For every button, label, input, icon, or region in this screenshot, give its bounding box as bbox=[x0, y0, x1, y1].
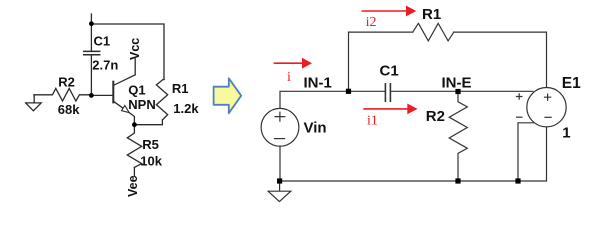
ground (left circuit) bbox=[26, 95, 42, 111]
current arrow i2 bbox=[362, 6, 417, 17]
svg-text:Vee: Vee bbox=[126, 175, 140, 197]
capacitor C1 (left) plates bbox=[84, 51, 100, 54]
svg-text:C1: C1 bbox=[94, 34, 111, 49]
svg-text:C1: C1 bbox=[380, 63, 399, 80]
Q1 collector wire to Vcc bbox=[113, 59, 135, 86]
E1 - sign (output) bbox=[544, 116, 551, 118]
junction node ground bbox=[277, 178, 282, 183]
wire: E1 minus control input bbox=[518, 123, 534, 181]
wire: top rail left segment bbox=[349, 31, 413, 33]
wire: C1 bottom lead to base node bbox=[90, 55, 92, 95]
svg-text:IN-1: IN-1 bbox=[304, 75, 332, 92]
svg-text:Q1: Q1 bbox=[128, 83, 145, 98]
resistor R2 (right) lead + zigzag bbox=[449, 92, 467, 182]
resistor R1 (right) zigzag bbox=[413, 23, 454, 41]
transistor Q1 body bbox=[112, 82, 114, 103]
svg-text:i1: i1 bbox=[367, 114, 378, 129]
dependent source E1 circle bbox=[527, 88, 566, 127]
junction node (emitter / R1 / R5) bbox=[132, 122, 137, 127]
Q1 emitter wire bbox=[113, 101, 134, 125]
Q1 emitter arrow (NPN) bbox=[122, 106, 130, 113]
E1 + sign (output) bbox=[544, 94, 551, 101]
current arrow i bbox=[274, 58, 312, 69]
junction node IN-1 bbox=[346, 89, 351, 94]
wire: top node to top-right corner and down to R1 bbox=[91, 24, 164, 80]
svg-text:R2: R2 bbox=[58, 74, 75, 89]
wire: top rail right segment down to E1 output + bbox=[454, 32, 547, 87]
wire: base wire from node to Q1 bbox=[91, 94, 113, 96]
E1 + sign (control input) bbox=[516, 93, 523, 100]
Vin - sign bbox=[274, 138, 285, 140]
svg-text:R5: R5 bbox=[142, 137, 159, 152]
capacitor C1 (right) plates bbox=[385, 84, 390, 101]
E1 - sign (control input) bbox=[516, 116, 523, 118]
Vin + sign bbox=[274, 93, 552, 138]
wire: C1 top lead bbox=[90, 24, 92, 51]
svg-text:R1: R1 bbox=[172, 81, 189, 96]
junction node R2 bottom bbox=[455, 178, 460, 183]
wire: top stub above node bbox=[90, 14, 92, 24]
svg-text:2.7n: 2.7n bbox=[92, 58, 118, 73]
svg-text:E1: E1 bbox=[562, 75, 581, 92]
svg-text:68k: 68k bbox=[58, 102, 80, 117]
svg-text:Vcc: Vcc bbox=[128, 38, 142, 60]
wire: R5 bottom lead to Vee bbox=[133, 167, 135, 176]
svg-text:R1: R1 bbox=[422, 6, 441, 23]
wire: R1 bottom to emitter node bbox=[134, 120, 162, 125]
wire: Vin bottom to ground node bbox=[279, 146, 281, 181]
junction node IN-E bbox=[455, 89, 460, 94]
resistor R2 (left) zigzag bbox=[34, 88, 91, 101]
resistor R5 zigzag bbox=[127, 125, 141, 168]
svg-text:NPN: NPN bbox=[128, 97, 155, 112]
junction node (base / R2 / C1) bbox=[89, 93, 94, 98]
voltage source Vin circle bbox=[261, 108, 299, 146]
svg-text:i: i bbox=[287, 70, 291, 85]
wire: IN-1 up to top rail bbox=[348, 32, 350, 91]
svg-text:10k: 10k bbox=[140, 154, 162, 169]
wire: C1 right to IN-E to E1 + input bbox=[391, 90, 533, 92]
junction node (C1 top / top wire) bbox=[89, 21, 94, 26]
svg-text:R2: R2 bbox=[426, 108, 445, 125]
junction node E1 minus input at ground rail bbox=[515, 178, 520, 183]
svg-text:1: 1 bbox=[562, 125, 570, 142]
current arrow i1 bbox=[363, 104, 417, 115]
yellow block arrow bbox=[214, 78, 242, 113]
svg-text:i2: i2 bbox=[366, 15, 377, 30]
svg-text:Vin: Vin bbox=[304, 120, 327, 137]
ground (right circuit) bbox=[268, 181, 291, 202]
wire: Vin top to IN-1 and on to C1 bbox=[280, 91, 385, 108]
svg-text:1.2k: 1.2k bbox=[173, 101, 199, 116]
svg-text:IN-E: IN-E bbox=[442, 75, 472, 92]
resistor R1 (left) zigzag bbox=[156, 80, 167, 121]
wire: bottom rail bbox=[280, 127, 547, 181]
